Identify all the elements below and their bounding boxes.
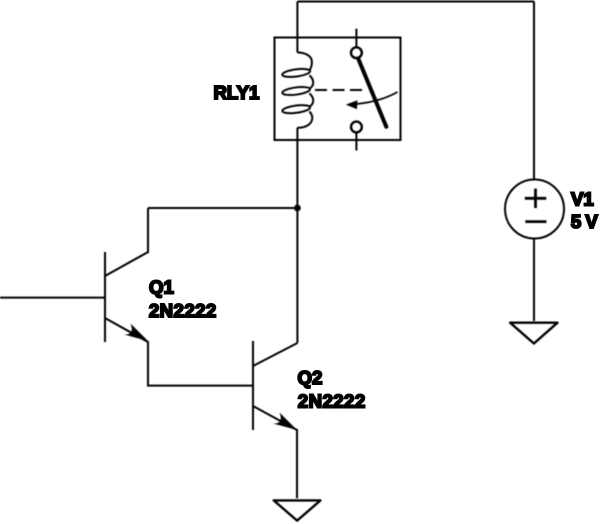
svg-text:2N2222: 2N2222 — [298, 391, 366, 412]
svg-text:RLY1: RLY1 — [214, 82, 260, 103]
svg-text:Q2: Q2 — [298, 367, 323, 388]
svg-text:Q1: Q1 — [149, 276, 174, 297]
svg-text:V1: V1 — [571, 189, 594, 210]
svg-text:2N2222: 2N2222 — [149, 300, 217, 321]
svg-text:5 V: 5 V — [571, 211, 599, 232]
